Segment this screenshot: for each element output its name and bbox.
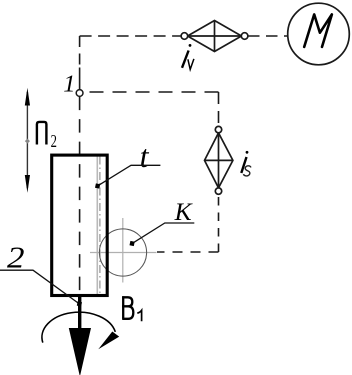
svg-text:t: t [140, 138, 150, 174]
svg-text:2: 2 [51, 132, 57, 152]
svg-text:1: 1 [63, 71, 75, 98]
svg-text:K: K [174, 197, 194, 226]
